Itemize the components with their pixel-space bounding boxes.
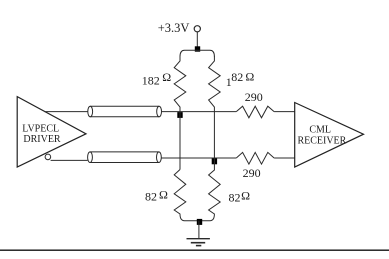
wire: driver inverted output to TL2 [51,159,88,161]
+3.3V label [158,21,190,35]
wire: ground stem [198,221,200,239]
receiver label text [297,125,346,147]
svg-text:290: 290 [243,166,261,180]
svg-text:82: 82 [231,70,243,84]
svg-text:290: 290 [245,90,263,104]
resistor R3 82 ohm (left pull-down) [174,170,199,221]
junction: bottom trace to right vertical [212,159,217,165]
op-amp U2: CML receiver triangle [295,103,364,168]
label R3: 82 Ω [145,188,168,204]
svg-text:Ω: Ω [241,189,250,203]
resistor R2 182 ohm (right pull-up) [209,56,221,112]
svg-text:LVPECL: LVPECL [22,123,59,134]
svg-text:82: 82 [229,191,241,205]
wire: R6 to receiver [274,157,295,159]
driver label text [22,123,61,145]
junction on supply rail [195,46,200,51]
junction: ground rail [197,219,202,225]
svg-text:182: 182 [142,74,160,88]
transmission line TL1 (top cylinder) [88,106,162,117]
svg-text:Ω: Ω [245,70,254,84]
wire: right vertical from R2 through top trace to bottom trace [213,112,215,158]
svg-text:Ω: Ω [159,188,168,202]
+3.3V supply terminal circle [194,26,200,32]
wire: top supply rail with rounded ends [180,50,214,56]
label R1: 182 Ω [142,70,171,88]
svg-text:82: 82 [145,189,157,203]
resistor R6 290 ohm (bottom series) [236,152,274,164]
svg-text:Ω: Ω [162,70,171,84]
inversion bubble on driver inverting output [45,154,51,160]
svg-text:RECEIVER: RECEIVER [297,135,346,146]
wire: R5 to receiver [274,111,295,113]
svg-text:+3.3V: +3.3V [158,21,190,35]
resistor R5 290 ohm (top series) [236,106,274,118]
wire: supply stem [196,32,198,50]
label R2: 182 Ω (offset baseline) [226,70,255,89]
resistor R1 182 ohm (left pull-up) [174,56,186,112]
wire: driver true output to TL1 [44,111,87,113]
svg-text:CML: CML [309,125,331,136]
wire: TL2 to bottom node trace [161,157,236,159]
wire: left vertical from top trace down to R3 [179,112,181,170]
bottom border rule [0,249,389,251]
label R5: 290 [245,90,263,104]
wire: TL1 to top node trace [162,111,237,113]
transmission line TL2 (bottom cylinder) [88,152,162,163]
op-amp U1: LVPECL driver triangle [17,97,86,168]
ground symbol [187,239,210,246]
svg-text:DRIVER: DRIVER [23,134,61,145]
junction: top trace to left vertical [177,112,182,118]
resistor R4 82 ohm (right pull-down) [200,158,220,221]
label R4: 82 Ω [229,189,251,205]
label R6: 290 [243,166,261,180]
